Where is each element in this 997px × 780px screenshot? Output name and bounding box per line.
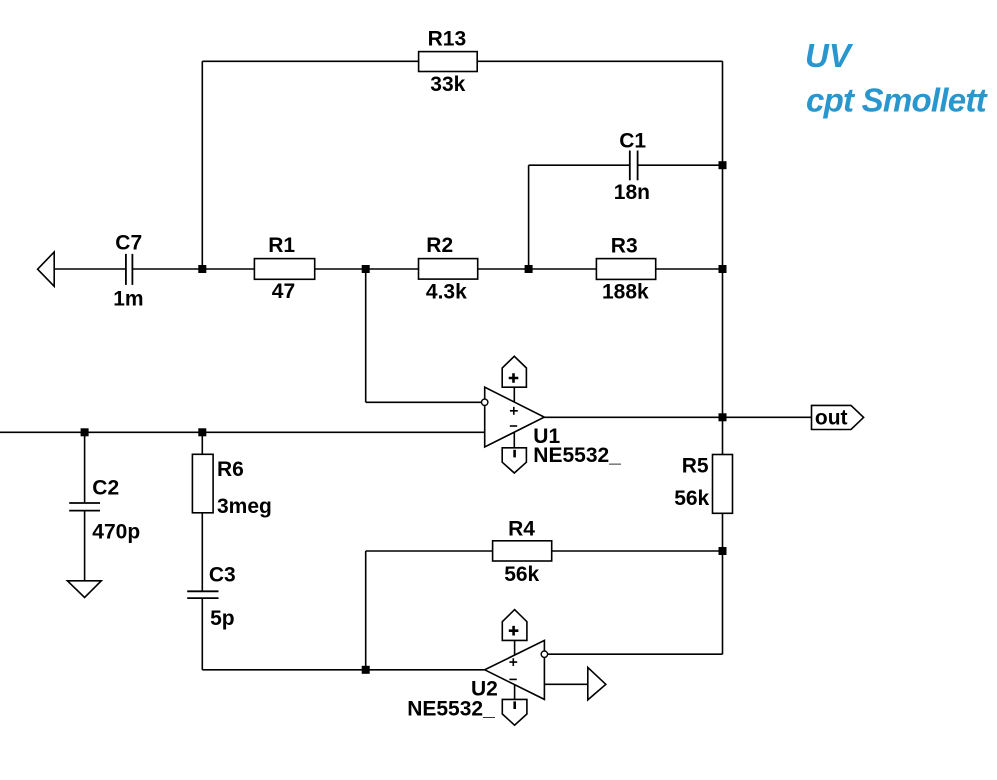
capacitor C1 [614, 130, 650, 204]
svg-text:R1: R1 [268, 234, 295, 257]
svg-text:out: out [815, 406, 848, 429]
capacitor C2 [69, 476, 140, 543]
capacitor C7 [113, 232, 143, 311]
wire: bottom row from C3 corner to U2 output apex [202, 669, 484, 671]
svg-text:R13: R13 [428, 28, 467, 51]
junction node: C7/R1/top branch [198, 265, 206, 273]
wire: R13 to right rail [477, 60, 722, 62]
wire: U2 + input horizontal from rail [544, 653, 722, 655]
svg-text:5p: 5p [210, 607, 235, 630]
wire: second row from left edge to U1 - input [0, 431, 485, 433]
svg-text:4.3k: 4.3k [426, 280, 467, 303]
svg-text:R5: R5 [682, 455, 709, 478]
wire: U2 - input to arrow port [544, 683, 587, 685]
svg-text:C3: C3 [209, 564, 236, 587]
wire: right rail vertical down to R5 top [722, 61, 724, 454]
wire: C2 bottom lead to ground [84, 511, 86, 580]
wire: vertical from main row up to R13 row [201, 61, 203, 269]
wire: R3 to right rail [656, 268, 723, 270]
wire: C3 bottom lead down to bottom row [201, 598, 203, 670]
svg-text:C2: C2 [92, 476, 119, 499]
wire: R1 to R2 [315, 268, 419, 270]
wire: C2 top lead [84, 432, 86, 502]
wire: R4 left lead [366, 550, 493, 552]
svg-text:C1: C1 [619, 130, 646, 153]
resistor R6 [192, 454, 271, 518]
svg-text:470p: 470p [92, 520, 140, 543]
wire: C7 right plate to R1 [132, 268, 254, 270]
svg-text:C7: C7 [115, 232, 142, 255]
op-amp U1 [482, 356, 622, 473]
junction node: R5 bottom/R4 [719, 547, 727, 555]
svg-text:188k: 188k [602, 280, 649, 303]
svg-text:UV: UV [805, 37, 854, 74]
wire: horizontal to U1 + input [366, 401, 485, 403]
junction node: R1/R2/U1+ branch [362, 265, 370, 273]
svg-text:3meg: 3meg [217, 495, 272, 518]
op-amp U2 (mirrored) [407, 610, 547, 726]
svg-text:R3: R3 [611, 234, 638, 257]
wire: C1 branch vertical down to main row [528, 165, 530, 269]
resistor R1 [254, 234, 314, 303]
svg-text:1m: 1m [113, 287, 143, 310]
wire: vertical from main row down to U1 + input [365, 269, 367, 402]
resistor R2 [419, 234, 478, 303]
wire: top row left segment to R13 [202, 60, 418, 62]
wire: input port to C7 left plate (main row) [54, 268, 126, 270]
wire: U1 output to out port [544, 416, 811, 418]
junction node: bottom row/R4 branch [362, 666, 370, 674]
ground [67, 581, 101, 598]
svg-text:56k: 56k [674, 487, 709, 510]
svg-text:R6: R6 [217, 458, 244, 481]
svg-text:NE5532_: NE5532_ [533, 444, 621, 467]
port arrow at U2 - input [588, 667, 606, 700]
junction node: R2/R3/C1 branch [525, 265, 533, 273]
wire: R6 bottom to C3 top plate [201, 513, 203, 591]
wire: rail from R5 bottom down to U2 + row [722, 513, 724, 654]
resistor R4 [493, 517, 552, 586]
junction node: R6/row2 [198, 428, 206, 436]
svg-text:47: 47 [272, 280, 295, 303]
resistor R3 [596, 234, 655, 303]
svg-text:R2: R2 [426, 234, 453, 257]
svg-text:R4: R4 [508, 517, 535, 540]
junction node: C1/rail [719, 161, 727, 169]
svg-text:cpt Smollett: cpt Smollett [806, 82, 989, 119]
wire: C1 left lead [529, 164, 630, 166]
input port arrow (left) [38, 252, 55, 286]
wire: R2 to R3 [478, 268, 597, 270]
svg-text:56k: 56k [504, 563, 539, 586]
resistor R5 [674, 455, 732, 514]
junction node: U1 output/rail [719, 413, 727, 421]
svg-text:33k: 33k [430, 73, 465, 96]
wire: R4 right lead to rail [552, 550, 723, 552]
junction node: R3/rail [719, 265, 727, 273]
junction node: C2/row2 [81, 428, 89, 436]
wire: vertical from bottom row up to R4 row [365, 551, 367, 670]
svg-text:NE5532_: NE5532_ [407, 698, 495, 721]
capacitor C3 [187, 564, 236, 630]
resistor R13 [419, 28, 478, 96]
svg-text:18n: 18n [614, 181, 650, 204]
wire: C1 right lead to rail [638, 164, 723, 166]
out port [812, 405, 864, 429]
wire: R6 top lead [201, 432, 203, 454]
